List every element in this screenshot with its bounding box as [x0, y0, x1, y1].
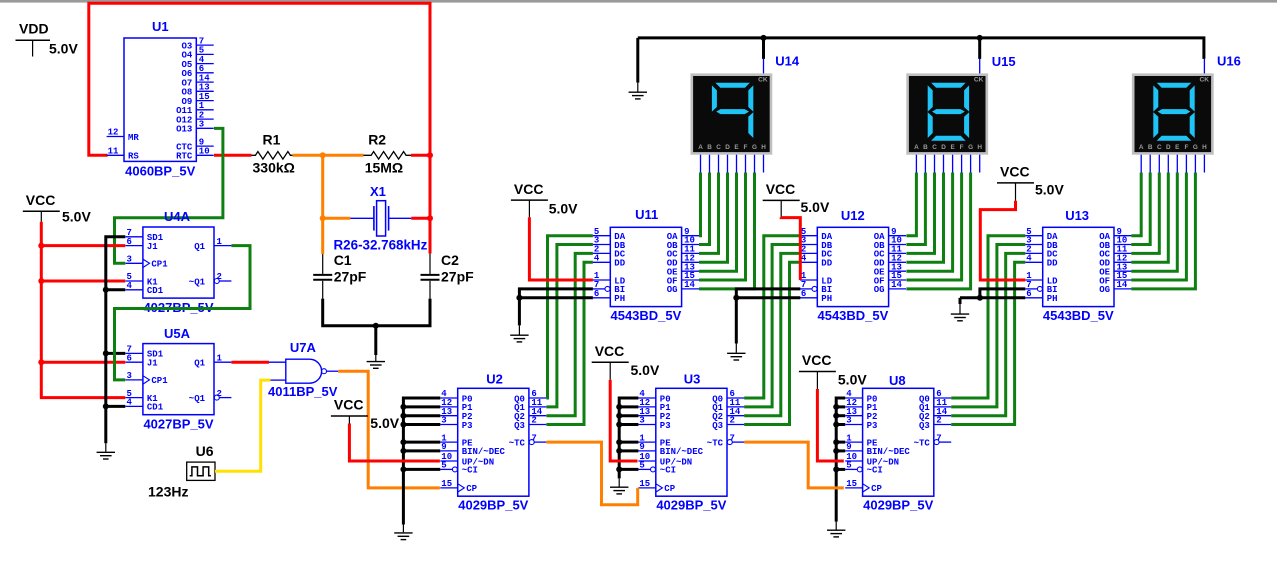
wire green: U11 outputs to U14: [699, 173, 755, 289]
display U14 seven-segment showing 9: [691, 59, 773, 173]
svg-text:U11: U11: [635, 207, 658, 222]
svg-text:123Hz: 123Hz: [148, 483, 188, 499]
wire green: U2 outputs to U11 inputs: [546, 236, 593, 425]
svg-text:4543BD_5V: 4543BD_5V: [1043, 308, 1114, 323]
svg-text:U13: U13: [1065, 208, 1089, 223]
svg-text:B: B: [707, 144, 712, 151]
svg-text:~CI: ~CI: [867, 466, 883, 476]
svg-text:14: 14: [684, 280, 695, 290]
svg-text:DD: DD: [821, 259, 832, 269]
svg-text:4: 4: [127, 281, 133, 291]
wire red: X1 right to rail: [411, 217, 430, 220]
junction red U4A.K1: [38, 278, 44, 284]
display U16 seven-segment showing 8: [1132, 59, 1214, 173]
flip-flop U5A 4027BP_5V: [126, 344, 232, 415]
svg-text:A: A: [914, 144, 919, 151]
svg-text:4543BD_5V: 4543BD_5V: [610, 308, 681, 323]
nand gate U7A 4011BP_5V: [269, 359, 338, 383]
svg-text:H: H: [1202, 144, 1207, 151]
svg-text:VCC: VCC: [334, 397, 364, 413]
svg-text:MR: MR: [128, 133, 139, 143]
junction black U13.PH: [977, 295, 983, 301]
wire red: VCC to U2.UP: [349, 424, 440, 462]
svg-text:PH: PH: [821, 294, 832, 304]
svg-text:Q3: Q3: [712, 421, 723, 431]
svg-text:OG: OG: [1099, 285, 1110, 295]
svg-text:4060BP_5V: 4060BP_5V: [125, 164, 195, 179]
svg-text:F: F: [960, 144, 964, 151]
power VCC U2: [331, 397, 368, 425]
svg-text:X1: X1: [370, 184, 386, 199]
svg-text:R2: R2: [368, 132, 386, 148]
power VCC U3: [592, 343, 629, 380]
ground under C1/C2: [367, 355, 385, 368]
svg-text:VCC: VCC: [514, 181, 544, 197]
svg-text:PH: PH: [1047, 294, 1058, 304]
wire orange: U3.~TC to U8.CP: [744, 442, 843, 488]
crystal X1: [350, 201, 411, 236]
svg-text:A: A: [698, 144, 703, 151]
svg-text:VCC: VCC: [595, 343, 625, 359]
svg-text:U14: U14: [775, 53, 800, 68]
svg-text:U15: U15: [992, 54, 1016, 69]
display U15 seven-segment showing 8: [906, 59, 988, 173]
svg-text:330kΩ: 330kΩ: [253, 160, 295, 176]
junction red X1/rail: [427, 215, 433, 221]
svg-text:2: 2: [936, 416, 941, 426]
junction CK U15: [977, 35, 983, 41]
svg-text:6: 6: [594, 289, 599, 299]
svg-text:H: H: [977, 144, 982, 151]
ground U12: [727, 344, 745, 361]
junctions U3 bus: [616, 404, 622, 410]
ground U3 bus: [610, 478, 628, 494]
wire red: VCC to U11.LD: [529, 217, 593, 280]
junction black U12.PH: [733, 295, 739, 301]
wire orange: U7A output to U2.CP: [338, 371, 440, 488]
svg-text:PH: PH: [614, 294, 625, 304]
wire orange: R1 to R2 with taps: [293, 154, 364, 157]
svg-text:U1: U1: [152, 19, 169, 34]
wire red: VCC to U8.UP: [817, 389, 843, 461]
wire green: U13 outputs to U16: [1131, 173, 1195, 289]
svg-text:2: 2: [531, 416, 536, 426]
svg-text:U8: U8: [889, 373, 906, 388]
svg-text:5.0V: 5.0V: [370, 415, 399, 431]
svg-text:VCC: VCC: [1000, 164, 1030, 180]
svg-text:C1: C1: [334, 252, 352, 268]
power VCC U11: [511, 181, 548, 218]
svg-text:14: 14: [1117, 280, 1128, 290]
svg-text:Q3: Q3: [919, 421, 930, 431]
svg-text:9: 9: [639, 442, 644, 452]
svg-text:E: E: [1175, 144, 1180, 151]
junction red U4A.J1: [38, 243, 44, 249]
svg-text:BIN/~DEC: BIN/~DEC: [462, 447, 506, 457]
ground U13: [951, 304, 969, 321]
svg-text:6: 6: [127, 353, 132, 363]
op U1 4060BP_5V 14-stage counter: [107, 36, 214, 161]
svg-text:5.0V: 5.0V: [801, 199, 830, 215]
svg-text:DD: DD: [614, 259, 625, 269]
wire black: U2 input bus: [403, 398, 440, 525]
svg-text:3: 3: [846, 416, 851, 426]
svg-text:27pF: 27pF: [334, 269, 367, 285]
svg-text:15: 15: [639, 479, 650, 489]
window top border: [0, 0, 1277, 3]
svg-text:3: 3: [127, 255, 132, 265]
svg-text:11: 11: [108, 147, 119, 157]
svg-text:G: G: [968, 144, 973, 151]
svg-text:CP1: CP1: [151, 376, 168, 386]
wire orange: to X1 left: [323, 217, 351, 220]
wire red: VCC to U3.UP: [610, 380, 637, 461]
wire black: C1 bottom to C2 bottom: [323, 299, 430, 326]
svg-text:7: 7: [936, 433, 941, 443]
svg-text:C2: C2: [441, 252, 459, 268]
svg-text:1: 1: [217, 353, 223, 363]
svg-text:3: 3: [639, 416, 644, 426]
svg-text:F: F: [1184, 144, 1188, 151]
svg-text:BIN/~DEC: BIN/~DEC: [660, 447, 704, 457]
wire black: U13 BI/PH to ground: [960, 289, 1025, 304]
junction orange R1/R2/X1: [320, 152, 326, 158]
svg-text:J1: J1: [147, 242, 158, 252]
svg-text:CP: CP: [466, 484, 477, 494]
decoder U11 4543BD_5V: [593, 227, 699, 307]
junction black C1/C2 ground: [373, 323, 379, 329]
wire black: junction to ground: [374, 326, 377, 355]
svg-text:D: D: [725, 144, 730, 151]
svg-text:2: 2: [217, 272, 222, 282]
wire green: U3 outputs to U12 inputs: [744, 236, 800, 425]
svg-text:R1: R1: [263, 132, 281, 148]
svg-text:Q1: Q1: [194, 359, 205, 369]
wire black: CK bus across displays: [638, 38, 1204, 83]
svg-text:6: 6: [1026, 289, 1031, 299]
svg-text:CD1: CD1: [147, 286, 164, 296]
svg-text:C: C: [932, 144, 937, 151]
wire red: U1.RTC to R1: [214, 154, 252, 157]
svg-text:OG: OG: [874, 285, 885, 295]
wire red: R2 right to rail: [411, 154, 430, 157]
svg-text:~Q1: ~Q1: [189, 277, 206, 287]
svg-text:4029BP_5V: 4029BP_5V: [656, 498, 726, 513]
power VCC U13: [997, 164, 1034, 201]
svg-text:5.0V: 5.0V: [62, 209, 91, 225]
svg-text:P3: P3: [462, 421, 473, 431]
svg-text:Q3: Q3: [514, 421, 525, 431]
svg-text:C: C: [716, 144, 721, 151]
svg-text:~Q1: ~Q1: [189, 394, 206, 404]
wire black: U12 BI/PH to ground: [736, 289, 800, 344]
svg-text:5: 5: [846, 461, 851, 471]
junction black U5A.SD1: [103, 350, 109, 356]
svg-text:~TC: ~TC: [509, 438, 526, 448]
svg-text:U5A: U5A: [164, 326, 191, 341]
svg-text:27pF: 27pF: [441, 269, 474, 285]
svg-text:15: 15: [441, 479, 452, 489]
counter U3 4029BP_5V: [638, 388, 744, 496]
svg-text:CK: CK: [974, 77, 984, 84]
ground CK bus: [629, 83, 647, 99]
svg-text:G: G: [1193, 144, 1198, 151]
wire red: U5A.Q1 to U7A input: [231, 361, 269, 364]
svg-text:4: 4: [801, 254, 807, 264]
svg-text:C: C: [1157, 144, 1162, 151]
svg-text:4: 4: [127, 398, 133, 408]
svg-text:RS: RS: [128, 152, 139, 162]
svg-text:~CI: ~CI: [660, 466, 676, 476]
wire green: U1.O13 to U4A.CP1: [115, 128, 223, 263]
svg-text:CD1: CD1: [147, 403, 164, 413]
svg-text:CP1: CP1: [151, 260, 168, 270]
ground U2 bus: [394, 525, 412, 540]
svg-text:U4A: U4A: [164, 209, 191, 224]
svg-text:F: F: [744, 144, 748, 151]
clock source U6: [187, 462, 215, 480]
wire black: U11 BI/PH to ground: [519, 289, 593, 326]
power VDD symbol: [16, 21, 51, 57]
svg-text:2: 2: [217, 389, 222, 399]
svg-text:U12: U12: [841, 208, 865, 223]
capacitor C2: [421, 254, 440, 299]
ground left net: [97, 443, 115, 459]
svg-text:15MΩ: 15MΩ: [365, 160, 403, 176]
svg-text:1: 1: [217, 237, 223, 247]
svg-text:7: 7: [531, 433, 536, 443]
flip-flop U4A 4027BP_5V: [126, 227, 232, 298]
wire yellow: U6 to U7A input: [215, 380, 271, 471]
svg-text:U6: U6: [196, 443, 214, 459]
wire black: SD1/CD1 rail to ground: [106, 237, 126, 443]
svg-text:5.0V: 5.0V: [1035, 182, 1064, 198]
junction CK U14: [761, 35, 767, 41]
svg-text:4543BD_5V: 4543BD_5V: [817, 308, 888, 323]
svg-text:3: 3: [127, 371, 132, 381]
wire green: U4A.Q1 to U5A.CP1: [115, 246, 251, 380]
svg-text:DD: DD: [1047, 259, 1058, 269]
svg-text:15: 15: [846, 479, 857, 489]
svg-text:H: H: [761, 144, 766, 151]
svg-text:7: 7: [730, 433, 735, 443]
decoder U12 4543BD_5V: [800, 227, 906, 307]
svg-text:D: D: [941, 144, 946, 151]
svg-text:6: 6: [801, 289, 806, 299]
svg-text:A: A: [1139, 144, 1144, 151]
wire orange: down to X1 and C1: [321, 155, 324, 254]
svg-text:B: B: [1148, 144, 1153, 151]
svg-text:3: 3: [441, 416, 446, 426]
svg-text:CK: CK: [758, 77, 768, 84]
wire red: top rail from U1.RS up across to right column: [89, 3, 430, 253]
wire black: U3 input bus: [619, 398, 638, 478]
power VCC U8: [799, 352, 836, 389]
svg-text:VCC: VCC: [26, 192, 56, 208]
svg-text:G: G: [752, 144, 757, 151]
power VCC U12: [763, 181, 800, 217]
counter U2 4029BP_5V: [440, 388, 546, 496]
svg-text:4: 4: [594, 254, 600, 264]
svg-text:14: 14: [891, 280, 902, 290]
svg-text:9: 9: [441, 442, 446, 452]
capacitor C1: [313, 254, 332, 299]
svg-text:CP: CP: [664, 484, 675, 494]
svg-text:4029BP_5V: 4029BP_5V: [863, 498, 933, 513]
junction red U5A.J1: [38, 359, 44, 365]
svg-text:5.0V: 5.0V: [631, 362, 660, 378]
svg-text:6: 6: [127, 237, 132, 247]
svg-text:R26-32.768kHz: R26-32.768kHz: [334, 238, 428, 253]
svg-text:9: 9: [846, 442, 851, 452]
ground U8 bus: [827, 522, 845, 537]
svg-text:E: E: [734, 144, 739, 151]
svg-text:P3: P3: [660, 421, 671, 431]
ground U11: [510, 325, 528, 342]
svg-text:3: 3: [199, 120, 204, 130]
svg-text:5.0V: 5.0V: [49, 41, 78, 57]
svg-text:VCC: VCC: [802, 352, 832, 368]
svg-text:~TC: ~TC: [707, 438, 724, 448]
junctions U2 bus: [400, 404, 406, 410]
svg-text:5: 5: [441, 461, 446, 471]
svg-text:~CI: ~CI: [462, 466, 478, 476]
svg-text:O13: O13: [176, 125, 192, 135]
svg-text:5: 5: [639, 461, 644, 471]
svg-text:5.0V: 5.0V: [549, 201, 578, 217]
decoder U13 4543BD_5V: [1025, 227, 1131, 307]
svg-text:5.0V: 5.0V: [838, 372, 867, 388]
wire red: VCC to U12.LD: [781, 217, 800, 280]
wire black: U8 input bus: [836, 398, 845, 522]
svg-text:4029BP_5V: 4029BP_5V: [458, 498, 528, 513]
svg-text:E: E: [950, 144, 955, 151]
svg-text:10: 10: [199, 147, 210, 157]
svg-text:CK: CK: [1200, 77, 1210, 84]
svg-text:OG: OG: [667, 285, 678, 295]
counter U8 4029BP_5V: [845, 388, 951, 496]
svg-text:2: 2: [730, 416, 735, 426]
svg-text:J1: J1: [147, 359, 158, 369]
resistor R1: [252, 152, 293, 160]
svg-text:VCC: VCC: [766, 181, 796, 197]
junctions U8 bus: [833, 404, 839, 410]
svg-text:U2: U2: [486, 371, 503, 386]
svg-text:U7A: U7A: [290, 340, 317, 355]
svg-text:U3: U3: [684, 371, 701, 386]
svg-text:~TC: ~TC: [914, 438, 931, 448]
wire green: U8 outputs to U13 inputs: [951, 236, 1025, 425]
wire green: U12 outputs to U15: [906, 173, 970, 289]
svg-text:B: B: [923, 144, 928, 151]
junction black U5A.CD1: [103, 403, 109, 409]
svg-text:P3: P3: [867, 421, 878, 431]
svg-text:VDD: VDD: [19, 21, 49, 37]
resistor R2: [364, 152, 414, 160]
power VCC left: [23, 192, 60, 222]
svg-text:U16: U16: [1217, 53, 1241, 68]
junction black U4A.CD1: [103, 287, 109, 293]
svg-text:RTC: RTC: [176, 152, 193, 162]
svg-text:12: 12: [108, 128, 119, 138]
junction orange X1 branch: [320, 215, 326, 221]
junction black U11.PH: [516, 295, 522, 301]
wire red: VCC to U13.LD: [980, 201, 1025, 280]
svg-text:4011BP_5V: 4011BP_5V: [268, 384, 338, 399]
svg-text:4027BP_5V: 4027BP_5V: [143, 417, 213, 432]
svg-text:4: 4: [1026, 254, 1032, 264]
svg-text:D: D: [1166, 144, 1171, 151]
svg-text:Q1: Q1: [194, 242, 205, 252]
junction red R2/rail: [427, 152, 433, 158]
wire orange: U2.~TC to U3.CP: [546, 442, 637, 505]
wire red: VCC left rail to J1/K1 pins: [41, 222, 125, 398]
svg-text:CP: CP: [871, 484, 882, 494]
svg-text:BIN/~DEC: BIN/~DEC: [867, 447, 911, 457]
